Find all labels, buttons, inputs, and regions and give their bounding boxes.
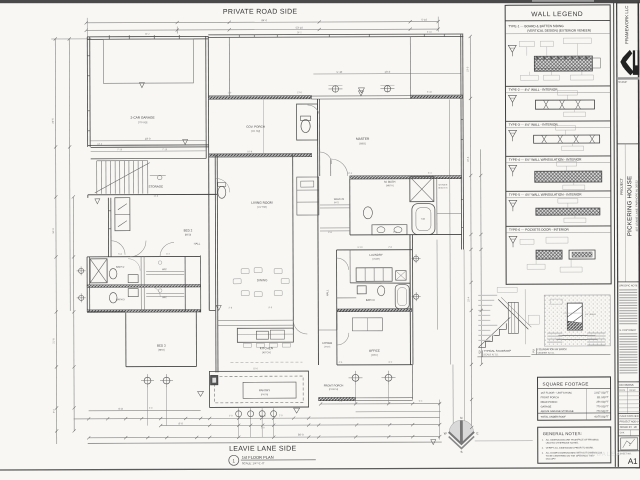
label LAUNDRY <box>369 253 382 261</box>
svg-text:18'-0: 18'-0 <box>145 137 151 141</box>
bed2 walls and closet <box>88 158 210 312</box>
svg-text:3'-0: 3'-0 <box>149 408 153 410</box>
label PRIVATE ROAD SIDE <box>223 9 298 16</box>
svg-text:13'-0: 13'-0 <box>297 92 303 94</box>
svg-text:84'-0: 84'-0 <box>261 18 267 22</box>
svg-text:5'-10: 5'-10 <box>421 18 427 22</box>
svg-text:53'-10: 53'-10 <box>296 26 304 30</box>
svg-text:8'-2: 8'-2 <box>389 362 393 364</box>
svg-text:REVISIONS: REVISIONS <box>620 383 634 387</box>
svg-text:15'-0: 15'-0 <box>253 368 259 370</box>
title block notes text <box>619 284 638 373</box>
rear porch walls <box>208 34 464 250</box>
svg-text:2'-8: 2'-8 <box>261 427 265 429</box>
svg-text:[PNTR]: [PNTR] <box>261 394 269 396</box>
svg-text:28'-6: 28'-6 <box>52 118 55 124</box>
svg-text:GENERAL NOTES:: GENERAL NOTES: <box>543 431 582 436</box>
svg-text:OFFICE: OFFICE <box>369 349 380 353</box>
svg-text:TYPE-2 — 4½" WALL - INTERIOR: TYPE-2 — 4½" WALL - INTERIOR <box>508 88 558 92</box>
svg-text:STAMP: STAMP <box>618 80 627 84</box>
svg-text:COV. PORCH: COV. PORCH <box>246 125 265 129</box>
legend type-3 section <box>506 121 611 151</box>
stairs <box>88 158 217 194</box>
svg-text:PROJECT: PROJECT <box>620 177 624 195</box>
svg-text:BED 2: BED 2 <box>184 228 193 232</box>
office desk <box>352 318 382 331</box>
label BATH 2 <box>116 266 125 269</box>
svg-text:2'-0: 2'-0 <box>229 415 233 417</box>
label BATH 4 <box>366 299 375 302</box>
svg-text:ALL DOORS DIMENSIONED WITHOUT: ALL DOORS DIMENSIONED WITHOUT DIMENSIONS <box>546 451 603 454</box>
svg-text:DRAWN BY: DRAWN BY <box>620 426 633 429</box>
dimension lines <box>51 16 482 444</box>
svg-text:[LIV RM]: [LIV RM] <box>257 206 267 209</box>
legend type-6 pocket door section <box>506 226 611 272</box>
svg-text:6'-8: 6'-8 <box>118 407 123 411</box>
master bath <box>350 176 462 234</box>
svg-text:TUB: TUB <box>421 219 426 221</box>
living column walls <box>209 155 294 372</box>
label KITCHEN <box>260 346 273 354</box>
svg-text:PRIVATE ROAD SIDE: PRIVATE ROAD SIDE <box>223 9 298 16</box>
svg-text:SHOWER: SHOWER <box>438 185 448 187</box>
square footage table <box>538 377 611 420</box>
svg-text:26'-2: 26'-2 <box>297 32 303 34</box>
svg-text:5'-10: 5'-10 <box>337 70 343 74</box>
left porch columns <box>141 374 204 397</box>
svg-text:6'-2: 6'-2 <box>166 254 170 256</box>
wall legend title <box>505 11 610 21</box>
svg-text:5'-8: 5'-8 <box>118 254 122 256</box>
svg-text:[779 SQ]: [779 SQ] <box>138 121 148 124</box>
north compass <box>444 416 479 454</box>
svg-text:W: W <box>444 432 447 436</box>
svg-text:DINING: DINING <box>257 278 268 282</box>
svg-text:HALL: HALL <box>325 289 329 296</box>
legend type-2 section <box>505 86 610 117</box>
svg-text:DATE: DATE <box>620 389 626 392</box>
svg-text:[WIC]: [WIC] <box>334 202 339 204</box>
svg-text:TYPE-3 — 4½" WALL - INTERIOR: TYPE-3 — 4½" WALL - INTERIOR <box>509 123 559 127</box>
svg-text:2-CAR GARAGE: 2-CAR GARAGE <box>130 116 154 120</box>
specific notes divider <box>618 281 640 283</box>
svg-text:256 SQ FT: 256 SQ FT <box>596 401 609 404</box>
label M BATH <box>384 180 395 188</box>
svg-text:[MBTH]: [MBTH] <box>386 185 394 187</box>
kitchen island <box>218 320 294 347</box>
stair stringer detail <box>477 287 539 357</box>
svg-text:BATH 3: BATH 3 <box>116 298 125 301</box>
svg-text:2: 2 <box>532 348 535 353</box>
svg-text:WALL LEGEND: WALL LEGEND <box>531 11 583 18</box>
svg-text:15'-4: 15'-4 <box>467 296 470 302</box>
label PANTRY <box>259 388 270 396</box>
svg-text:2,817 SQ FT: 2,817 SQ FT <box>594 391 609 394</box>
pantry <box>209 362 308 407</box>
svg-text:FRAMEWORK LLC: FRAMEWORK LLC <box>624 6 629 44</box>
svg-text:23-14: 23-14 <box>634 421 640 423</box>
living room toilet niche <box>216 178 230 198</box>
svg-text:WIC: WIC <box>162 296 167 299</box>
wall symbols <box>76 82 436 446</box>
svg-text:TO BE CENTERED ON THE OPENINGS: TO BE CENTERED ON THE OPENINGS THEY <box>546 455 595 457</box>
svg-text:34'-0: 34'-0 <box>52 228 55 234</box>
legend type-1 section <box>505 24 610 80</box>
svg-text:TYPE-6 — POCKETS DOOR - INTE: TYPE-6 — POCKETS DOOR - INTERIOR <box>509 228 570 232</box>
svg-text:LAUNDRY: LAUNDRY <box>369 253 382 257</box>
svg-text:779 SQ FT: 779 SQ FT <box>596 410 609 413</box>
svg-text:4,975 SQ FT: 4,975 SQ FT <box>594 415 609 418</box>
svg-text:2'-8: 2'-8 <box>388 247 392 249</box>
svg-text:PICKERING HOUSE: PICKERING HOUSE <box>627 176 633 237</box>
svg-text:VERIFY ALL DIMENSIONS PRIOR TO: VERIFY ALL DIMENSIONS PRIOR TO WORK. <box>546 446 594 449</box>
bath2 bath3 block <box>87 256 200 312</box>
porch ceiling fans <box>328 85 394 93</box>
svg-text:5'-10: 5'-10 <box>427 32 433 34</box>
label BED 3 <box>157 344 166 352</box>
label HALL right <box>325 289 329 296</box>
svg-text:LIVING ROOM: LIVING ROOM <box>251 201 273 205</box>
svg-text:1.: 1. <box>542 440 544 442</box>
firm logo <box>620 50 639 76</box>
label LIVING ROOM <box>251 201 273 209</box>
svg-text:TYPE-5 — 4½" WALL W/INSULATI: TYPE-5 — 4½" WALL W/INSULATION - INTERIO… <box>509 193 582 197</box>
storage door <box>150 175 166 179</box>
svg-text:5'-10: 5'-10 <box>427 92 433 94</box>
svg-text:PANTRY: PANTRY <box>259 388 270 392</box>
svg-text:9'-0: 9'-0 <box>268 307 272 309</box>
svg-text:HALL: HALL <box>194 241 201 245</box>
front porch right <box>318 365 412 401</box>
svg-text:OCCUPY.: OCCUPY. <box>546 459 557 461</box>
svg-text:S. COPYRIGHT: S. COPYRIGHT <box>619 329 637 332</box>
svg-text:SPECIFIC NOTE: SPECIFIC NOTE <box>619 284 638 287</box>
svg-text:779 SQ FT: 779 SQ FT <box>596 405 609 408</box>
svg-text:SQUARE FOOTAGE: SQUARE FOOTAGE <box>543 382 589 387</box>
svg-text:2'-0: 2'-0 <box>279 415 283 417</box>
right wing walls <box>336 235 412 365</box>
svg-text:N: N <box>460 416 462 420</box>
svg-text:KITCHEN: KITCHEN <box>260 346 273 350</box>
hall walls <box>317 99 336 365</box>
label 2-CAR GARAGE <box>130 116 154 125</box>
label STORAGE <box>148 185 163 189</box>
label WIC upper <box>162 268 167 271</box>
watermark <box>597 452 621 458</box>
dining chairs <box>233 268 289 297</box>
label DINING <box>257 278 268 282</box>
svg-text:MASTER: MASTER <box>356 137 370 141</box>
brick veneer foundation detail <box>531 295 610 355</box>
svg-text:BALSA: BALSA <box>597 452 621 458</box>
svg-text:7'-2: 7'-2 <box>339 401 343 403</box>
svg-text:REAR PORCH: REAR PORCH <box>541 401 558 404</box>
svg-text:1: 1 <box>233 458 236 463</box>
svg-text:3.: 3. <box>542 453 544 455</box>
label WALK-IN <box>334 198 345 204</box>
svg-text:13'-0: 13'-0 <box>385 70 391 74</box>
svg-text:SHEET NO.: SHEET NO. <box>620 453 632 455</box>
svg-text:6'-10: 6'-10 <box>358 247 364 249</box>
svg-text:[111 SQ]: [111 SQ] <box>251 130 260 133</box>
svg-text:(VERTICAL DESIGN) (EXTERIOR VE: (VERTICAL DESIGN) (EXTERIOR VENEER) <box>527 29 591 33</box>
svg-text:[OFC]: [OFC] <box>371 354 378 357</box>
svg-text:[BED]: [BED] <box>360 142 367 145</box>
svg-text:STORAGE: STORAGE <box>148 185 163 189</box>
svg-text:LEAVIE LANE SIDE: LEAVIE LANE SIDE <box>229 446 296 453</box>
svg-text:21'-8: 21'-8 <box>52 338 55 344</box>
title block borders <box>614 2 640 468</box>
label OFFICE <box>369 349 380 357</box>
svg-text:[PORCH]: [PORCH] <box>329 389 339 391</box>
svg-text:5'-4: 5'-4 <box>419 401 423 403</box>
svg-text:WIC: WIC <box>162 268 167 271</box>
svg-text:[KITCH]: [KITCH] <box>262 351 271 354</box>
svg-text:BED 3: BED 3 <box>157 344 166 348</box>
issue info rows <box>618 413 640 436</box>
svg-text:S: S <box>460 450 462 454</box>
svg-text:UNLESS OTHERWISE NOTED.: UNLESS OTHERWISE NOTED. <box>546 443 579 445</box>
svg-text:9'-2: 9'-2 <box>53 408 56 413</box>
svg-text:TOTAL UNDER ROOF: TOTAL UNDER ROOF <box>541 416 567 419</box>
svg-text:TYPICAL STAIRSTEP: TYPICAL STAIRSTEP <box>483 349 511 353</box>
legend type-5 section <box>506 191 611 223</box>
wall legend box <box>505 5 611 284</box>
garage walls <box>87 36 208 158</box>
svg-text:CHK: CHK <box>620 432 625 434</box>
window ticks <box>87 34 463 229</box>
svg-text:2: 2 <box>629 443 631 447</box>
svg-text:18'-0: 18'-0 <box>97 144 103 146</box>
legend type-4 section <box>506 156 611 190</box>
garage door pad <box>103 39 193 83</box>
powder room + toilet <box>297 104 318 140</box>
svg-text:FRONT PORCH: FRONT PORCH <box>324 383 344 387</box>
svg-text:19'-6: 19'-6 <box>467 156 470 162</box>
fireplace built-ins <box>297 177 319 215</box>
bottom colonnade <box>210 407 309 419</box>
label COV PORCH <box>246 125 265 133</box>
project name PICKERING HOUSE <box>627 176 633 237</box>
revisions table <box>618 382 640 413</box>
svg-text:[BED]: [BED] <box>158 349 165 352</box>
dimension labels <box>117 18 429 438</box>
svg-text:M. BATH: M. BATH <box>384 180 395 184</box>
svg-text:ABOVE GARAGE STORAGE: ABOVE GARAGE STORAGE <box>541 410 574 413</box>
svg-text:FRONT PORCH: FRONT PORCH <box>541 396 559 399</box>
label LEAVIE LANE SIDE <box>229 446 296 453</box>
master walk-in <box>320 205 350 231</box>
svg-text:2.: 2. <box>542 448 544 450</box>
project address <box>635 180 639 232</box>
svg-text:08/23: 08/23 <box>634 416 640 418</box>
stamp divider <box>617 77 640 84</box>
svg-text:SCALE: 1/4"=1'-0": SCALE: 1/4"=1'-0" <box>242 461 265 465</box>
laundry appliances <box>356 268 406 282</box>
door swing arcs <box>111 105 349 346</box>
svg-text:GARAGE: GARAGE <box>541 405 552 408</box>
svg-text:1'-0: 1'-0 <box>228 92 232 94</box>
svg-text:A1: A1 <box>628 457 638 466</box>
svg-text:11'-6: 11'-6 <box>154 196 159 198</box>
svg-text:20'-2: 20'-2 <box>145 34 151 36</box>
svg-text:SCALE N.T.S.: SCALE N.T.S. <box>483 353 498 356</box>
sheet number block <box>618 438 640 466</box>
garage interior dim lines <box>91 140 206 151</box>
svg-text:ISSUE DATE: ISSUE DATE <box>620 415 634 418</box>
svg-text:E: E <box>476 431 478 435</box>
svg-text:1/2" SHIMS: 1/2" SHIMS <box>585 314 596 316</box>
svg-text:3: 3 <box>478 349 481 354</box>
title 1st FLOOR PLAN <box>229 455 316 466</box>
svg-text:HEAD 6'-6: HEAD 6'-6 <box>438 187 448 190</box>
svg-text:12'-4: 12'-4 <box>347 173 353 175</box>
svg-text:407 LEAVIE LANE, FAIRHOPE AL 3: 407 LEAVIE LANE, FAIRHOPE AL 36532 <box>635 180 639 232</box>
label FRONT PORCH <box>324 383 344 391</box>
svg-text:BATH 2: BATH 2 <box>116 266 125 269</box>
bath 4 fixtures <box>337 285 410 309</box>
scan top edge band <box>0 0 640 3</box>
label BATH 3 <box>116 298 125 301</box>
svg-text:4'-6: 4'-6 <box>339 362 343 364</box>
firm name FRAMEWORK LLC <box>624 6 629 44</box>
svg-text:4'-8: 4'-8 <box>328 232 332 234</box>
label FOYER <box>323 341 333 349</box>
svg-text:[BED]: [BED] <box>185 233 192 236</box>
svg-text:7'-10: 7'-10 <box>117 149 123 151</box>
master bedroom walls <box>331 158 462 179</box>
bed3 walls <box>87 311 196 366</box>
svg-text:1ST FLOOR - UNIT'S HVAC: 1ST FLOOR - UNIT'S HVAC <box>541 392 573 395</box>
svg-text:10'-0: 10'-0 <box>466 66 469 72</box>
svg-text:[LNDR]: [LNDR] <box>372 259 380 261</box>
label WIC lower <box>162 296 167 299</box>
svg-text:16'-8: 16'-8 <box>247 151 253 153</box>
label HALL left <box>194 241 201 245</box>
label MASTER <box>356 137 370 146</box>
cov porch walls <box>208 99 311 157</box>
svg-text:WALK-IN: WALK-IN <box>334 198 345 201</box>
svg-text:VENEER N.T.S.: VENEER N.T.S. <box>537 352 554 355</box>
svg-text:5'-4: 5'-4 <box>428 173 432 175</box>
svg-text:ALL DIMENSIONS ARE TRUE/FACE O: ALL DIMENSIONS ARE TRUE/FACE OF FRAMING <box>546 438 599 441</box>
dim ticks and tiny labels <box>51 20 483 440</box>
svg-text:DESC: DESC <box>630 390 637 392</box>
svg-text:FOYER: FOYER <box>323 341 333 345</box>
svg-text:36'-0: 36'-0 <box>298 433 304 437</box>
svg-text:8'-0: 8'-0 <box>179 422 184 426</box>
svg-text:BATH 4: BATH 4 <box>366 299 375 302</box>
svg-text:7'-10: 7'-10 <box>162 149 168 151</box>
svg-text:1st FLOOR PLAN: 1st FLOOR PLAN <box>242 455 274 460</box>
svg-text:MF: MF <box>634 427 638 429</box>
svg-text:2'-8: 2'-8 <box>228 307 232 309</box>
svg-text:[FOY]: [FOY] <box>325 346 331 348</box>
label PROJECT <box>620 144 626 282</box>
svg-text:TYPE-4 — 6½" WALL W/INSULATI: TYPE-4 — 6½" WALL W/INSULATION - INTERIO… <box>509 158 582 162</box>
label BED 2 <box>184 228 193 236</box>
svg-text:FOUNDATION W/ BRICK: FOUNDATION W/ BRICK <box>537 347 567 351</box>
svg-text:111 SQ FT: 111 SQ FT <box>597 396 609 399</box>
bottom border line <box>88 441 533 444</box>
general notes box <box>538 427 611 463</box>
scan bottom page edge line <box>0 467 640 471</box>
project divider <box>617 143 639 145</box>
